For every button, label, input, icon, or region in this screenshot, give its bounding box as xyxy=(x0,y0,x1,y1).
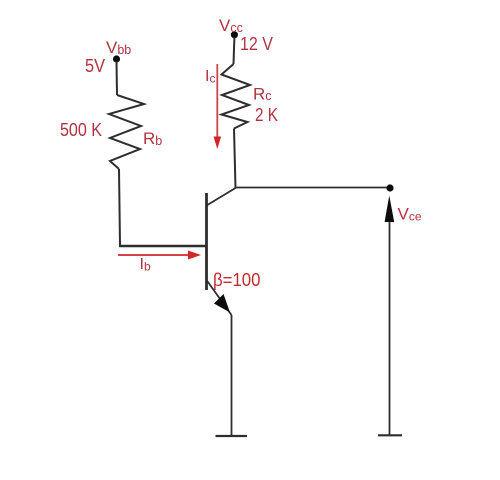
resistor Rb xyxy=(109,95,144,169)
transistor Q1 collector lead xyxy=(207,188,236,206)
wire emitter down xyxy=(231,315,233,435)
node Vcc (supply dot) xyxy=(231,31,238,38)
wire base horizontal xyxy=(119,245,207,247)
voltage arrow Vce (points up to node) xyxy=(385,196,395,436)
node collector-output junction xyxy=(386,184,393,191)
wire Vbb to Rb xyxy=(116,61,119,95)
transistor Q1 emitter lead with arrow xyxy=(207,280,232,315)
current arrow Ib xyxy=(118,251,201,260)
wire collector horizontal xyxy=(236,187,391,189)
svg-text:12 V: 12 V xyxy=(240,34,273,54)
wire Vcc to Rc xyxy=(233,37,236,64)
svg-text:Ic: Ic xyxy=(205,68,215,86)
svg-text:2 K: 2 K xyxy=(255,105,278,125)
svg-text:5V: 5V xyxy=(85,56,105,76)
ground (output) xyxy=(378,434,402,436)
current arrow Ic xyxy=(214,64,222,149)
svg-text:500 K: 500 K xyxy=(60,120,102,140)
node Vbb (supply dot) xyxy=(113,55,120,62)
svg-text:β=100: β=100 xyxy=(213,270,261,290)
wire Rc to collector node xyxy=(234,129,236,189)
resistor Rc xyxy=(222,64,251,129)
transistor Q1 base bar xyxy=(205,193,208,290)
svg-text:Ib: Ib xyxy=(140,256,151,274)
ground (emitter) xyxy=(216,435,248,437)
wire Rb to base corner xyxy=(119,169,120,246)
